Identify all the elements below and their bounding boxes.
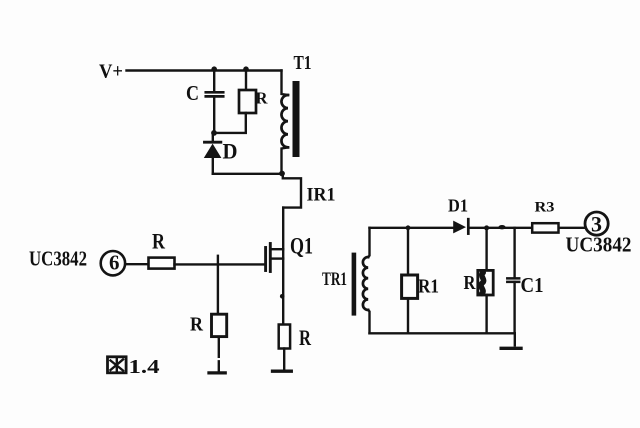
node junction above R [243,66,249,72]
ground (left) [209,371,225,374]
wire C1 bottom lead [513,282,515,333]
diode D1 [453,219,468,233]
svg-text:D: D [223,139,238,164]
svg-text:R1: R1 [418,276,439,298]
node junction at T1 primary bottom [279,171,285,177]
svg-text:C: C [186,81,199,105]
wire secondary top rail [370,227,585,229]
pin 6 circle [101,251,125,275]
diode D (zener clamp) [204,142,222,158]
wire bottom rail of clamp loop [213,173,283,175]
wire R top lead [245,71,247,91]
svg-text:R: R [299,325,312,350]
wire C top lead [213,71,215,92]
wire R bottom to junction [216,113,246,133]
wire V+ top rail [127,69,282,71]
transistor Q1 [266,244,284,272]
wire pulldown R to ground [218,337,220,371]
resistor R1 [402,275,418,298]
resistor R3 [532,223,558,232]
svg-text:1.4: 1.4 [129,356,160,378]
resistor R (source sense) [279,325,290,349]
resistor R (snubber) [239,90,256,113]
node blob on Q1 source wire [280,294,285,299]
wire IR1 jog (T1 to Q1 drain) [283,174,301,208]
figure label 图1.4 [108,357,127,373]
wire pin6 to R [126,263,149,265]
capacitor C1 [507,278,519,282]
svg-text:T1: T1 [294,52,312,74]
svg-text:IR1: IR1 [307,185,336,206]
svg-text:TR1: TR1 [322,269,347,290]
svg-text:UC3842: UC3842 [29,247,87,271]
svg-text:V+: V+ [99,61,123,83]
node junction above C [211,66,217,72]
wire variable R top lead [485,228,487,271]
transformer TR1 core [352,253,357,316]
svg-text:R: R [464,272,476,294]
ground (below Q1 source) [273,370,292,373]
wire junction to D [212,133,214,142]
wire R1 top lead [407,228,409,275]
node junction above R (variable) [484,225,489,230]
svg-text:R: R [152,229,166,254]
wire R1 bottom lead [407,298,409,333]
svg-text:Q1: Q1 [290,234,313,259]
wire C bottom lead [213,97,215,133]
wire R to Q1 gate [175,263,265,265]
node junction above R1 [406,225,411,230]
wire variable R bottom lead [485,295,487,333]
pin 3 circle [585,212,608,235]
wire C1 top lead [513,228,515,278]
svg-text:UC3842: UC3842 [566,233,632,257]
svg-text:R: R [256,89,269,108]
resistor R (variable) [478,270,493,295]
resistor R (gate pulldown) [212,314,227,336]
resistor R (gate series) [149,258,175,269]
svg-text:D1: D1 [448,196,468,216]
wire Q1 drain/source vertical [282,208,284,325]
ground (secondary) [501,333,521,348]
wire sense R to ground [283,349,285,370]
svg-text:R: R [190,314,203,336]
capacitor C [206,92,223,96]
svg-text:R3: R3 [535,200,555,216]
svg-text:6: 6 [109,250,120,274]
node blob on top rail [498,225,505,229]
transformer T1 core [293,81,300,157]
wire junction vertical to lower R [217,256,219,314]
transformer T1 primary winding [281,71,288,174]
wire D bottom lead [212,158,214,174]
node junction C/D/R [211,130,217,136]
transformer TR1 secondary winding [363,228,370,333]
svg-text:C1: C1 [521,273,544,297]
wire secondary bottom rail [370,332,515,334]
